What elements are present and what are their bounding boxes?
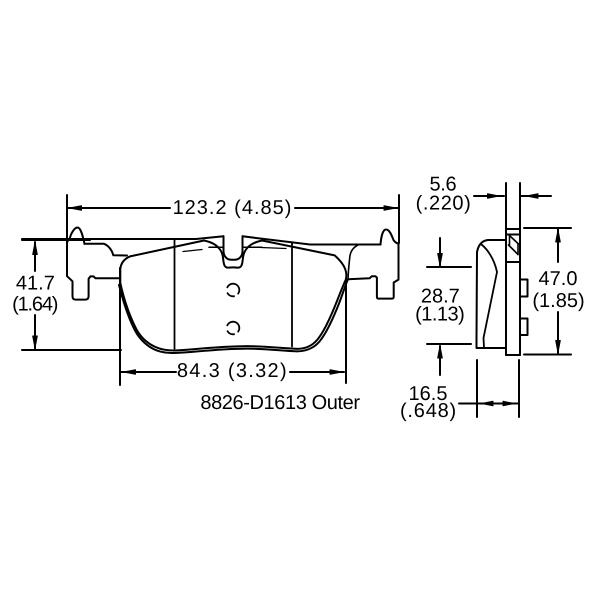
dimension 5.6: left arrowhead: [488, 194, 500, 198]
dimension 16.5: left arrowhead (pointing left): [482, 401, 494, 405]
dimension 47.0: bottom extension line: [524, 354, 571, 356]
dimension 28.7: upper leader line: [439, 238, 441, 266]
side view: friction outline: [477, 240, 507, 355]
side view: plate bottom edge: [506, 354, 520, 356]
plate right edge and foot: [348, 244, 399, 299]
dimension 28.7: bottom extension line: [427, 343, 471, 345]
svg-text:(1.64): (1.64): [12, 294, 58, 316]
hole lower: [227, 322, 239, 335]
dimension 84.3: right arrowhead: [330, 370, 342, 375]
dimension 16.5: right arrowhead (pointing right): [503, 401, 515, 405]
dimension 84.3: right extension line: [345, 280, 347, 383]
friction inner ledge left of notch: [209, 246, 224, 248]
hole upper: [227, 284, 239, 297]
side view: shim band line: [506, 234, 520, 236]
dimension 28.7: upper arrowhead (down): [438, 254, 443, 266]
dimension 47.0: bottom arrowhead: [556, 341, 561, 353]
dimension 123.2: dimension line left part: [68, 207, 171, 209]
dimension 123.2: left extension line: [66, 195, 68, 247]
dimension 47.0: dimension line top segment: [557, 230, 559, 263]
dimension 123.2: left arrowhead: [70, 206, 82, 211]
svg-text:84.3 (3.32): 84.3 (3.32): [177, 360, 288, 382]
svg-text:(.220): (.220): [416, 193, 472, 215]
backing plate edge behind friction (double line, bottom periphery): [119, 279, 348, 353]
side view: plate top edge: [506, 228, 520, 230]
dimension 41.7: dimension line top segment: [34, 242, 36, 271]
dimension 5.6: dimension line left: [474, 195, 504, 197]
dimension 47.0: top extension line: [524, 227, 571, 229]
dimension 5.6: right arrowhead: [527, 194, 539, 198]
dimension 28.7: lower arrowhead (up): [438, 346, 443, 358]
plate edge curve at right ear inner: [348, 245, 359, 280]
svg-text:41.7: 41.7: [16, 273, 55, 295]
side view: shim notch vertical: [509, 235, 511, 246]
side view: detail bottom line: [506, 261, 520, 263]
dimension 41.7: top arrowhead: [33, 243, 38, 255]
dimension 16.5: dimension line: [459, 403, 519, 405]
side view: hatch diagonal 2: [509, 245, 519, 255]
svg-text:(1.85): (1.85): [532, 290, 584, 312]
chamfer vertical line right: [291, 242, 293, 346]
friction inner ledge right of notch: [243, 246, 263, 248]
side view: plate front line: [505, 183, 507, 355]
dimension 84.3: dimension line left part: [121, 371, 176, 373]
plate notch at top center: [224, 236, 243, 259]
dimension 28.7: top extension line: [427, 266, 471, 268]
dimension 47.0: dimension line bottom segment: [557, 312, 559, 353]
chamfer vertical line left: [174, 240, 176, 349]
dimension 84.3: left extension line: [119, 268, 121, 385]
dimension 47.0: top arrowhead: [556, 230, 561, 242]
dimension 41.7: bottom extension line: [22, 349, 121, 351]
svg-text:123.2 (4.85): 123.2 (4.85): [173, 197, 293, 219]
friction inner dash left: [183, 250, 202, 252]
side view: friction taper line: [482, 245, 498, 348]
svg-text:(1.13): (1.13): [415, 304, 464, 326]
friction inner dash right: [261, 248, 286, 249]
friction material outline front view: [120, 241, 346, 351]
dimension 16.5: left extension line: [476, 360, 478, 417]
svg-text:8826-D1613 Outer: 8826-D1613 Outer: [200, 392, 360, 414]
plate left edge and foot: [67, 239, 120, 299]
dimension 84.3: left arrowhead: [124, 370, 136, 375]
side view: hatch diagonal 1: [510, 236, 519, 244]
plate top edge short segment left: [85, 244, 128, 256]
dimension 84.3: dimension line right part: [290, 371, 344, 373]
side view: lower tab: [520, 319, 528, 336]
dimension 41.7: dimension line bottom segment: [34, 315, 36, 349]
plate left ear bump: [70, 228, 85, 244]
plate top edge right half: [243, 236, 381, 244]
side view: upper tab: [520, 280, 528, 297]
dimension 41.7: bottom arrowhead: [33, 336, 38, 348]
dimension 16.5: right extension line: [518, 360, 520, 417]
dimension 123.2: right extension line: [398, 195, 400, 243]
dimension 123.2: right arrowhead: [384, 206, 396, 211]
dimension 28.7: lower leader line: [439, 346, 441, 375]
plate top edge and 41.7 top extension line: [22, 236, 224, 239]
svg-text:(.648): (.648): [400, 400, 457, 422]
side view: hatch small vertical: [517, 244, 519, 255]
dimension 5.6: dimension line right: [522, 195, 552, 197]
dimension 41.7: top extension line: [22, 239, 90, 241]
svg-text:47.0: 47.0: [539, 268, 578, 290]
side view: plate back line: [519, 183, 521, 355]
dimension 123.2: dimension line right part: [295, 207, 398, 209]
plate right ear bump: [381, 230, 399, 245]
